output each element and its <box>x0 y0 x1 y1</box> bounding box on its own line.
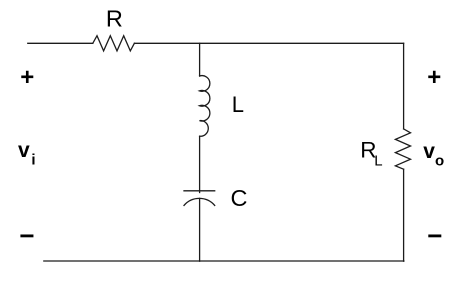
wire from capacitor down to bottom wire <box>199 198 201 261</box>
svg-text:R: R <box>106 6 123 32</box>
svg-text:−: − <box>19 221 34 251</box>
svg-text:v: v <box>18 139 30 162</box>
svg-text:+: + <box>20 64 34 91</box>
wire right vertical lower (RL down to bottom-right corner) <box>403 169 405 261</box>
svg-text:L: L <box>232 92 244 117</box>
inductor L <box>200 76 210 137</box>
svg-text:v: v <box>423 140 435 163</box>
svg-text:i: i <box>31 151 35 168</box>
wire right vertical upper (top-right corner down to RL) <box>403 43 405 129</box>
resistor R <box>93 36 135 51</box>
svg-text:L: L <box>374 152 382 169</box>
wire top-left from input terminal to resistor R <box>28 42 93 44</box>
capacitor C top plate <box>184 190 215 192</box>
wire bottom return <box>44 260 404 262</box>
svg-text:+: + <box>427 64 441 91</box>
resistor RL <box>395 129 410 169</box>
svg-text:−: − <box>427 221 442 251</box>
svg-text:o: o <box>435 153 444 170</box>
wire from inductor to capacitor top plate <box>199 136 201 192</box>
svg-text:C: C <box>231 185 248 211</box>
wire middle vertical from top-wire junction down to inductor <box>199 43 201 76</box>
wire top from resistor to top-right corner <box>134 42 403 44</box>
capacitor C curved bottom plate <box>184 198 215 205</box>
